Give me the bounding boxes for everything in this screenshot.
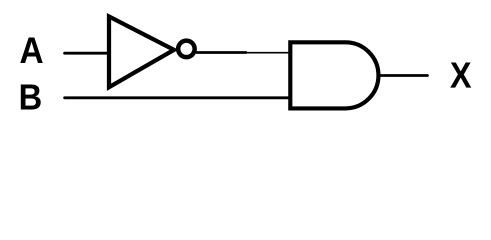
node X — [450, 63, 471, 88]
inverter U1 bubble — [178, 41, 195, 58]
node A — [20, 38, 42, 63]
node B — [21, 84, 41, 109]
wire X output — [380, 74, 428, 77]
wire A input — [65, 52, 109, 55]
wire bubble to AND (segment 1) — [197, 51, 246, 54]
wire bubble to AND (segment 2) — [246, 52, 290, 54]
wire B input — [65, 96, 290, 99]
AND gate U2 — [290, 42, 378, 108]
inverter U1 triangle — [109, 17, 174, 88]
